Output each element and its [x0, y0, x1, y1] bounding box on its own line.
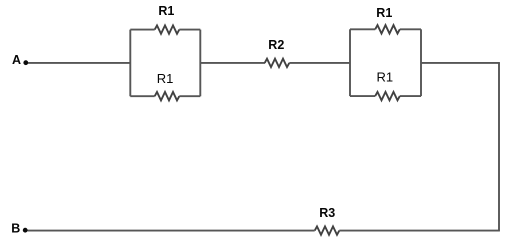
wire — [339, 230, 500, 232]
svg-text:R1: R1 — [157, 71, 174, 86]
wire — [28, 62, 130, 64]
wire — [199, 30, 201, 97]
wire — [129, 30, 131, 97]
svg-text:B: B — [11, 222, 20, 236]
node B — [11, 222, 27, 236]
wire — [200, 62, 265, 64]
wire — [28, 230, 315, 232]
svg-text:R1: R1 — [376, 70, 393, 85]
svg-text:R2: R2 — [268, 38, 284, 52]
resistor R3 — [315, 206, 340, 235]
wire — [420, 29, 422, 96]
resistor R1 — [130, 71, 200, 100]
wire — [289, 62, 350, 64]
svg-text:A: A — [12, 53, 21, 67]
resistor R1 — [350, 6, 421, 34]
svg-text:R1: R1 — [158, 4, 174, 18]
svg-text:R1: R1 — [376, 6, 392, 20]
wire — [349, 29, 351, 96]
resistor R2 — [265, 38, 290, 67]
node A — [12, 53, 28, 67]
resistor R1 — [350, 70, 421, 101]
wire — [421, 62, 500, 64]
resistor R1 — [130, 4, 200, 34]
wire — [498, 63, 500, 231]
svg-text:R3: R3 — [319, 206, 335, 220]
